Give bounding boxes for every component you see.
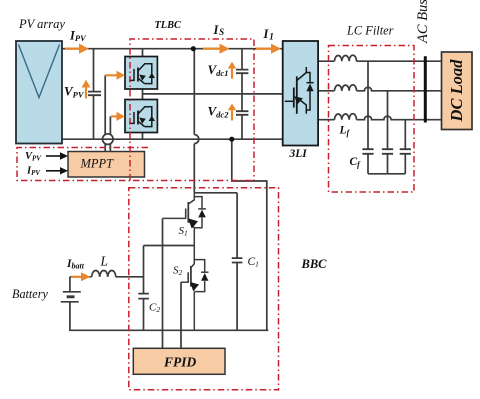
svg-text:Cf: Cf [350,156,362,169]
svg-text:IPV: IPV [26,166,41,178]
svg-text:MPPT: MPPT [80,157,115,171]
svg-text:I1: I1 [263,27,274,42]
svg-text:DC Load: DC Load [447,59,466,123]
svg-text:Ibatt: Ibatt [66,258,85,271]
svg-text:Vdc1: Vdc1 [208,62,229,78]
svg-text:AC Bus: AC Bus [415,0,431,44]
svg-text:TLBC: TLBC [155,20,181,31]
svg-text:C1: C1 [248,256,259,269]
svg-text:BBC: BBC [301,257,328,271]
svg-text:Battery: Battery [12,287,48,301]
svg-text:IPV: IPV [69,29,87,44]
svg-text:Vdc2: Vdc2 [208,104,230,120]
svg-text:PV array: PV array [18,17,65,31]
svg-text:L: L [100,254,109,269]
svg-text:S2: S2 [173,265,183,278]
svg-text:VPV: VPV [64,84,85,100]
svg-text:C2: C2 [149,302,160,315]
svg-text:S1: S1 [179,225,188,238]
svg-text:FPID: FPID [163,355,197,370]
svg-text:IS: IS [213,23,225,37]
svg-text:LC Filter: LC Filter [346,24,394,38]
svg-text:Lf: Lf [339,125,351,138]
svg-text:VPV: VPV [25,151,42,163]
svg-text:3LI: 3LI [289,148,308,160]
